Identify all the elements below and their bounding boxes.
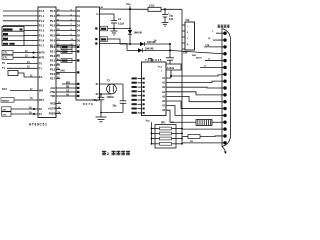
connector pin dots [222, 32, 227, 145]
label BUSY row [196, 58, 203, 60]
wire STB long to printer [170, 50, 222, 53]
resistor network RP1 body [155, 121, 176, 148]
svg-text:P2.3: P2.3 [50, 59, 56, 63]
svg-text:P0.4: P0.4 [50, 29, 56, 33]
resistor R1 5.1 on rail [148, 5, 182, 12]
svg-text:P2.5: P2.5 [50, 68, 56, 72]
control wires U1 to U2 [50, 83, 76, 98]
svg-text:P0.1: P0.1 [50, 14, 56, 18]
printer connector label 接打印机 [218, 25, 230, 28]
capacitor C5 [166, 44, 174, 64]
svg-text:P2.2: P2.2 [50, 54, 56, 58]
svg-text:1N4148: 1N4148 [134, 32, 143, 35]
ground symbol C1 [111, 29, 118, 36]
svg-text:P1.1: P1.1 [39, 14, 45, 18]
svg-text:P3.6: P3.6 [2, 88, 8, 91]
wires P1.0-P1.3 to left edge [3, 11, 38, 26]
svg-text:P2.1: P2.1 [50, 50, 56, 54]
power rail wire [100, 6, 149, 9]
svg-text:P0.6: P0.6 [50, 38, 56, 42]
wire INT1 [2, 55, 45, 59]
CZ1 stub wires [182, 25, 185, 49]
wire RESET [1, 98, 44, 103]
svg-text:P1.3: P1.3 [39, 24, 45, 28]
svg-text:PSE: PSE [50, 91, 55, 94]
svg-text:CTL: CTL [3, 52, 8, 55]
wire STB to pin3 [204, 45, 222, 47]
cable arrow to printer [222, 147, 227, 154]
diode D3 1N4148 row B [127, 47, 171, 52]
svg-text:CTL: CTL [3, 57, 8, 60]
wire X1 to crystal [100, 83, 124, 85]
svg-text:P0.2: P0.2 [50, 19, 56, 23]
svg-text:P0.3: P0.3 [50, 24, 56, 28]
svg-text:Vcc: Vcc [146, 120, 151, 123]
svg-text:P1.6: P1.6 [39, 38, 45, 42]
svg-text:P1.2: P1.2 [39, 19, 45, 23]
U3 top pin stub [148, 59, 152, 63]
U1 pin labels P1.0-P1.7 [39, 9, 45, 47]
svg-text:PSEN: PSEN [49, 113, 56, 116]
svg-text:30p: 30p [94, 100, 99, 102]
svg-text:X2: X2 [39, 107, 43, 111]
bottom wire to last pin [182, 142, 222, 144]
U3 right pin labels [162, 77, 166, 112]
wire U2 pin to C1 [96, 14, 114, 21]
data bus wires U1 to U2 [56, 9, 76, 46]
svg-text:P0.0: P0.0 [50, 9, 56, 13]
caption 图2 硬件电路 [102, 151, 130, 156]
wire WR row [2, 88, 43, 92]
wire UA0 row [56, 70, 76, 73]
IC U1 part label AT89C51 [29, 123, 48, 127]
wire X1 row [2, 112, 43, 117]
connector CZ1 body [185, 19, 195, 50]
capacitor C3 30p [113, 84, 127, 113]
wire T1 [2, 66, 42, 70]
svg-text:CM: CM [186, 19, 190, 22]
svg-text:75B: 75B [183, 52, 188, 55]
svg-text:0.1µF: 0.1µF [118, 23, 125, 26]
stub wire pin5 [205, 59, 222, 61]
wire X2 to crystal [100, 93, 112, 95]
RP1 resistors R1-R4 [151, 127, 183, 145]
boxed net label row3 [60, 58, 76, 62]
svg-text:EA: EA [39, 75, 43, 79]
boxed net label row2 [60, 49, 76, 53]
svg-text:WR: WR [39, 89, 43, 93]
svg-text:6.2kΩ: 6.2kΩ [167, 67, 174, 70]
svg-text:INT0: INT0 [39, 51, 45, 55]
wire X2 row [2, 107, 43, 112]
svg-text:Vcc: Vcc [126, 2, 131, 6]
connector CZ2 hatched [196, 120, 212, 126]
IC U3 74HC245 body [142, 58, 167, 116]
svg-text:TXD: TXD [50, 95, 55, 98]
wire U2 T1 row with boxed label [100, 26, 131, 31]
wire box to printer row [170, 70, 222, 78]
svg-text:P1.0: P1.0 [39, 9, 45, 13]
resistor label 5.1k [154, 41, 157, 43]
long vertical power wire [181, 9, 183, 143]
svg-text:12MHz: 12MHz [107, 97, 115, 99]
svg-text:P2.0: P2.0 [50, 45, 56, 49]
svg-text:CS: CS [66, 91, 70, 93]
svg-text:74HC245: 74HC245 [145, 58, 162, 62]
svg-text:WR: WR [66, 83, 70, 85]
ground symbol C4 [162, 23, 169, 27]
ground symbol xtal [96, 113, 107, 122]
diode D2 1N4148 row A [130, 41, 171, 46]
wire to pin2 [208, 37, 222, 40]
boxed net label row1 [60, 45, 76, 49]
svg-text:RP1: RP1 [161, 123, 166, 125]
svg-text:P1.4: P1.4 [39, 29, 45, 33]
svg-text:ALE: ALE [50, 87, 55, 90]
svg-text:ALE/P: ALE/P [48, 108, 56, 111]
U3 left pins with labels [132, 77, 145, 113]
resistor box 6.2k [166, 64, 181, 70]
svg-text:X1: X1 [39, 112, 43, 116]
wire T0 [2, 61, 42, 66]
diode D1 1N4148 vertical [128, 9, 143, 45]
svg-text:RESET: RESET [2, 100, 10, 102]
svg-text:RD: RD [66, 87, 70, 89]
svg-text:BUSY: BUSY [196, 58, 203, 60]
VCC symbol RP1 [146, 120, 152, 144]
svg-text:1N4148: 1N4148 [147, 41, 156, 44]
U1 pin labels P2.0-P2.7 [50, 45, 60, 81]
capacitor C2 30p [94, 93, 105, 112]
IC U2 part label [83, 102, 94, 106]
capacitor C1 0.1uF [111, 18, 125, 29]
stub wire pin6 [200, 65, 222, 67]
crystal Y1 12MHz [107, 80, 117, 100]
svg-text:16V: 16V [169, 18, 174, 21]
svg-text:STB: STB [205, 45, 210, 47]
IC U2 8279 body [76, 7, 100, 100]
U1 pin labels P0.0-P0.7 [50, 9, 56, 47]
connector CZ3 shell [222, 29, 231, 147]
wire to pin15 [182, 128, 222, 130]
svg-text:8279: 8279 [83, 102, 94, 106]
capacitor C4 10u electrolytic [162, 9, 174, 22]
IC U1 AT89C51 body [38, 7, 56, 118]
svg-text:P0.5: P0.5 [50, 34, 56, 38]
svg-text:P2.4: P2.4 [50, 63, 56, 67]
svg-text:P1.7: P1.7 [39, 43, 45, 47]
svg-text:1N4148: 1N4148 [145, 47, 154, 50]
svg-text:P2.7: P2.7 [50, 77, 56, 81]
svg-text:30p: 30p [113, 106, 118, 108]
U2 left pin labels [77, 10, 98, 97]
svg-text:2: 2 [107, 152, 109, 156]
wire +5V to pin1 [212, 31, 222, 33]
CZ1 label 7805 [183, 52, 197, 58]
U1 bottom right stub pins [48, 102, 61, 116]
wire U2 pin to diode row B [100, 44, 128, 51]
U2 xtal pin labels [95, 83, 99, 96]
wire INT0 [2, 50, 45, 54]
wire U2 pin to diode row A [100, 37, 130, 44]
switch box S5 to EA pin [8, 71, 43, 80]
VCC symbol [126, 2, 131, 10]
resistor R3 [182, 135, 222, 143]
svg-text:INT1: INT1 [39, 55, 45, 59]
svg-text:P2.6: P2.6 [50, 72, 56, 76]
svg-text:UA0: UA0 [60, 70, 65, 73]
svg-text:RXD: RXD [50, 103, 55, 106]
ground rail xtal [100, 112, 123, 114]
wires S1 to P1.4-P1.7 [24, 31, 38, 46]
data wires U3 to printer connector [166, 78, 222, 122]
svg-text:5.1Ω: 5.1Ω [149, 5, 154, 8]
DIP switch block S1 [2, 27, 24, 46]
svg-text:P1.5: P1.5 [39, 34, 45, 38]
svg-text:AT89C51: AT89C51 [29, 123, 48, 127]
svg-text:RST: RST [39, 98, 45, 102]
